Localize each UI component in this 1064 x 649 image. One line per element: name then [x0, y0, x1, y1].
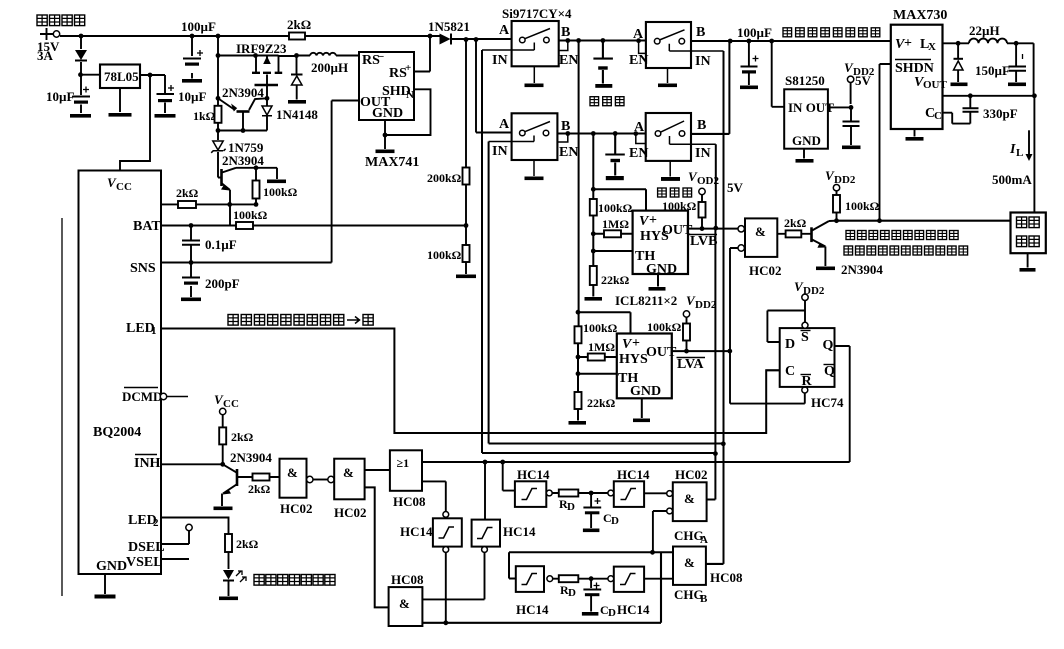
svg-text:HC74: HC74 [811, 395, 844, 410]
svg-text:EN: EN [629, 146, 648, 161]
svg-text:1kΩ: 1kΩ [193, 109, 216, 123]
svg-text:DD2: DD2 [695, 299, 717, 311]
svg-text:HC08: HC08 [710, 570, 743, 585]
svg-text:10µF: 10µF [178, 89, 206, 104]
svg-text:S81250: S81250 [785, 73, 825, 88]
svg-text:N: N [406, 89, 414, 101]
svg-text:1N4148: 1N4148 [276, 107, 318, 122]
svg-text:B: B [696, 25, 705, 40]
svg-text:22kΩ: 22kΩ [601, 273, 630, 287]
svg-text:+: + [649, 213, 657, 228]
svg-text:100kΩ: 100kΩ [263, 185, 298, 199]
svg-text:OUT: OUT [662, 223, 693, 238]
svg-text:HC14: HC14 [517, 467, 550, 482]
svg-text:&: & [684, 491, 695, 506]
svg-text:100kΩ: 100kΩ [233, 208, 268, 222]
svg-text:22µH: 22µH [969, 23, 1000, 38]
svg-text:IN: IN [695, 54, 711, 69]
svg-text:GND: GND [792, 133, 821, 148]
svg-text:10µF: 10µF [46, 89, 74, 104]
svg-text:OUT: OUT [646, 345, 677, 360]
svg-text:&: & [343, 465, 354, 480]
svg-text:HC14: HC14 [617, 467, 650, 482]
svg-text:HYS: HYS [619, 352, 648, 367]
svg-text:IN: IN [492, 144, 508, 159]
svg-text:IN: IN [492, 53, 508, 68]
svg-text:2N3904: 2N3904 [841, 262, 883, 277]
svg-text:INH: INH [134, 456, 161, 471]
svg-text:&: & [684, 555, 695, 570]
svg-text:HC08: HC08 [393, 494, 426, 509]
svg-text:GND: GND [96, 559, 127, 574]
svg-text:MAX730: MAX730 [893, 8, 947, 23]
svg-text:Q: Q [824, 364, 835, 379]
svg-text:2N3904: 2N3904 [222, 85, 264, 100]
svg-text:2: 2 [153, 517, 159, 529]
svg-text:B: B [697, 118, 706, 133]
svg-text:1N5821: 1N5821 [428, 19, 470, 34]
svg-text:B: B [561, 25, 570, 40]
svg-text:SNS: SNS [130, 261, 156, 276]
svg-text:200kΩ: 200kΩ [427, 171, 462, 185]
svg-text:EN: EN [559, 53, 578, 68]
svg-text:C: C [934, 110, 942, 122]
svg-text:HC14: HC14 [503, 524, 536, 539]
svg-text:1: 1 [151, 325, 157, 337]
svg-text:5V: 5V [727, 180, 744, 195]
svg-text:D: D [567, 501, 575, 513]
svg-text:1MΩ: 1MΩ [602, 217, 629, 231]
svg-text:MAX741: MAX741 [365, 155, 419, 170]
svg-text:&: & [755, 224, 766, 239]
svg-text:DD2: DD2 [803, 285, 825, 297]
svg-text:+: + [904, 36, 912, 51]
svg-text:Q: Q [823, 338, 834, 353]
svg-text:GND: GND [630, 384, 661, 399]
svg-text:DD2: DD2 [834, 174, 856, 186]
svg-text:DCMD: DCMD [122, 389, 162, 404]
svg-text:100kΩ: 100kΩ [427, 248, 462, 262]
svg-text:200pF: 200pF [205, 276, 240, 291]
svg-text:HC02: HC02 [334, 505, 367, 520]
svg-text:VSEL: VSEL [126, 555, 163, 570]
svg-text:OD2: OD2 [697, 175, 720, 187]
svg-text:GND: GND [646, 262, 677, 277]
svg-text:100kΩ: 100kΩ [662, 199, 697, 213]
svg-text:500mA: 500mA [992, 172, 1032, 187]
svg-text:100kΩ: 100kΩ [598, 201, 633, 215]
svg-text:D: D [785, 337, 795, 352]
svg-text:22kΩ: 22kΩ [587, 396, 616, 410]
svg-text:2N3904: 2N3904 [230, 450, 272, 465]
svg-text:1MΩ: 1MΩ [588, 340, 615, 354]
svg-text:+: + [405, 62, 411, 74]
svg-text:DSEL: DSEL [128, 540, 165, 555]
svg-text:A: A [499, 117, 510, 132]
svg-text:2kΩ: 2kΩ [236, 537, 259, 551]
svg-text:L: L [1016, 147, 1023, 159]
svg-text:200µH: 200µH [311, 60, 348, 75]
svg-text:C: C [785, 364, 795, 379]
svg-text:+: + [632, 336, 640, 351]
svg-text:HC08: HC08 [391, 572, 424, 587]
svg-text:GND: GND [372, 106, 403, 121]
svg-text:ICL8211×2: ICL8211×2 [615, 293, 677, 308]
svg-text:100kΩ: 100kΩ [845, 199, 880, 213]
svg-text:OUT: OUT [923, 79, 948, 91]
svg-text:2kΩ: 2kΩ [287, 17, 311, 32]
svg-text:A: A [499, 23, 510, 38]
svg-text:Si9717CY×4: Si9717CY×4 [502, 6, 572, 21]
svg-text:IRF9Z23: IRF9Z23 [236, 41, 287, 56]
svg-text:HC02: HC02 [675, 467, 708, 482]
svg-text:HC02: HC02 [749, 263, 782, 278]
svg-text:I: I [1009, 142, 1016, 157]
svg-text:D: D [568, 587, 576, 599]
svg-text:&: & [399, 596, 410, 611]
svg-text:2kΩ: 2kΩ [176, 186, 199, 200]
svg-text:IN OUT: IN OUT [788, 100, 834, 115]
svg-text:CC: CC [116, 181, 132, 193]
svg-text:LVB: LVB [690, 234, 718, 249]
svg-text:CC: CC [223, 398, 239, 410]
svg-text:D: D [608, 607, 616, 619]
svg-text:3A: 3A [37, 48, 54, 63]
svg-text:R: R [802, 374, 813, 389]
svg-text:0.1µF: 0.1µF [205, 237, 237, 252]
svg-text:A: A [700, 534, 708, 546]
svg-text:B: B [700, 593, 708, 605]
svg-text:LVA: LVA [677, 357, 704, 372]
svg-text:78L05: 78L05 [104, 69, 139, 84]
svg-text:100kΩ: 100kΩ [647, 320, 682, 334]
svg-text:IN: IN [695, 146, 711, 161]
svg-text:HC14: HC14 [617, 602, 650, 617]
svg-text:EN: EN [559, 145, 578, 160]
svg-text:2N3904: 2N3904 [222, 153, 264, 168]
svg-text:≥1: ≥1 [397, 456, 410, 470]
svg-text:100µF: 100µF [737, 25, 772, 40]
svg-text:BQ2004: BQ2004 [93, 425, 141, 440]
svg-text:HC14: HC14 [516, 602, 549, 617]
svg-text:2kΩ: 2kΩ [784, 216, 807, 230]
svg-text:330pF: 330pF [983, 106, 1018, 121]
svg-text:EN: EN [629, 53, 648, 68]
svg-text:BAT: BAT [133, 219, 161, 234]
svg-text:5V: 5V [855, 73, 872, 88]
svg-text:100kΩ: 100kΩ [583, 321, 618, 335]
svg-text:D: D [611, 515, 619, 527]
svg-text:HC14: HC14 [400, 524, 433, 539]
svg-text:&: & [287, 465, 298, 480]
svg-text:150µF: 150µF [975, 63, 1010, 78]
svg-text:100µF: 100µF [181, 19, 216, 34]
svg-text:2kΩ: 2kΩ [231, 430, 254, 444]
svg-text:−: − [378, 51, 384, 63]
svg-text:SHDN: SHDN [895, 61, 934, 76]
svg-text:X: X [928, 41, 936, 53]
svg-text:HC02: HC02 [280, 501, 313, 516]
svg-text:2kΩ: 2kΩ [248, 482, 271, 496]
svg-text:S: S [801, 330, 809, 345]
